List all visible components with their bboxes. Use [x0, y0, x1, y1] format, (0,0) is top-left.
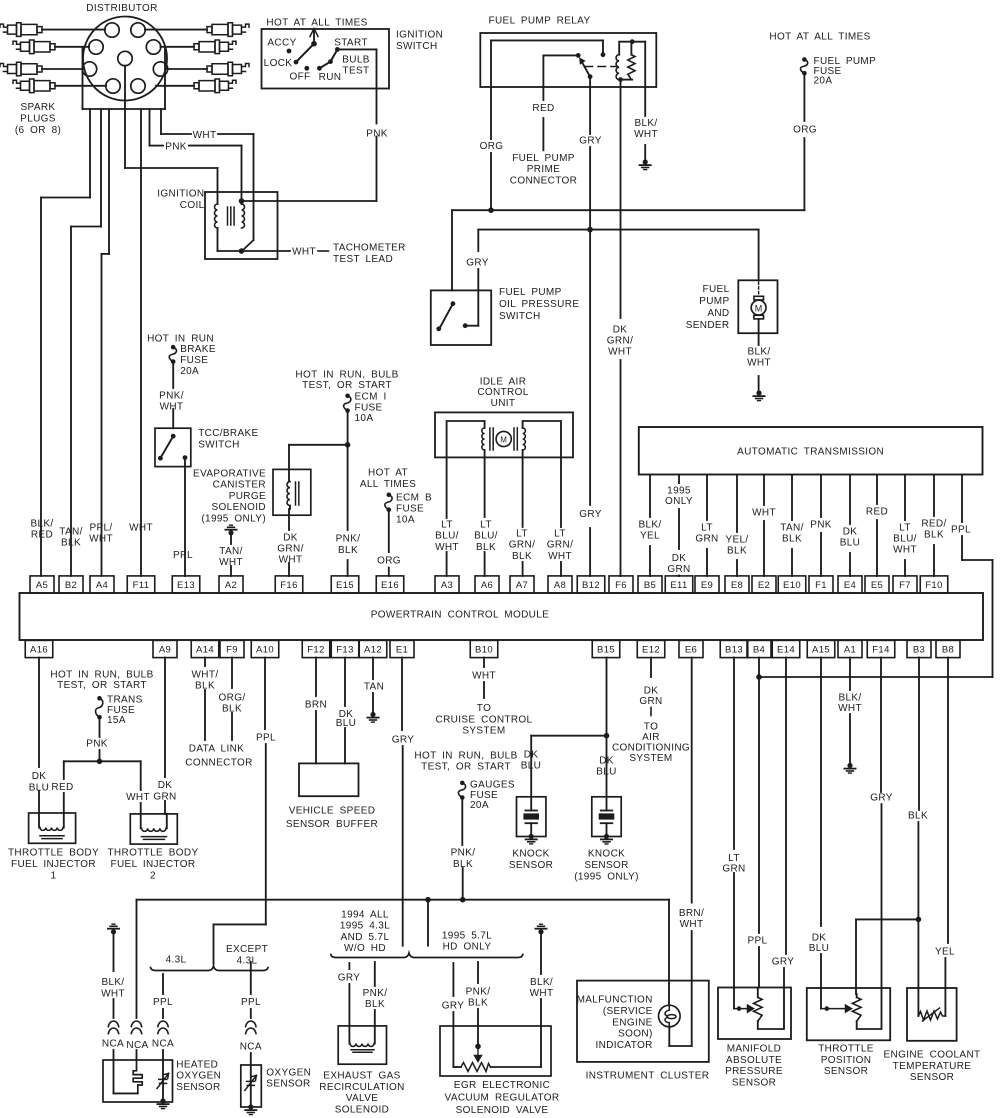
svg-text:DK: DK: [283, 533, 298, 544]
svg-text:WHT: WHT: [101, 988, 125, 999]
svg-text:SPARK: SPARK: [21, 102, 56, 113]
svg-text:ENGINE: ENGINE: [612, 1017, 652, 1028]
svg-text:IGNITION: IGNITION: [396, 30, 443, 41]
svg-text:WHT: WHT: [548, 551, 572, 562]
svg-text:GRY: GRY: [579, 509, 602, 520]
svg-text:FUEL: FUEL: [703, 284, 730, 295]
svg-text:NCA: NCA: [102, 1038, 124, 1049]
svg-text:LOCK: LOCK: [264, 58, 293, 69]
svg-text:UNIT: UNIT: [491, 398, 516, 409]
svg-text:W/O HD: W/O HD: [344, 943, 386, 954]
svg-text:WHT: WHT: [472, 671, 496, 682]
svg-text:RECIRCULATION: RECIRCULATION: [319, 1082, 404, 1093]
svg-text:IDLE AIR: IDLE AIR: [480, 377, 527, 388]
svg-text:1995 5.7L: 1995 5.7L: [442, 931, 492, 942]
svg-text:PLUGS: PLUGS: [20, 113, 56, 124]
svg-text:PNK: PNK: [86, 739, 108, 750]
svg-text:OXYGEN: OXYGEN: [266, 1068, 311, 1079]
svg-text:INDICATOR: INDICATOR: [595, 1040, 652, 1051]
svg-text:E13: E13: [177, 580, 195, 591]
svg-text:WHT: WHT: [126, 792, 150, 803]
svg-text:E12: E12: [642, 645, 660, 656]
svg-text:HD ONLY: HD ONLY: [443, 942, 492, 953]
svg-text:TAN/: TAN/: [219, 546, 242, 557]
svg-text:A8: A8: [554, 580, 566, 591]
svg-text:WHT/: WHT/: [192, 670, 219, 681]
svg-text:TEMPERATURE: TEMPERATURE: [893, 1061, 972, 1072]
svg-text:ALL TIMES: ALL TIMES: [360, 479, 416, 490]
svg-text:AUTOMATIC TRANSMISSION: AUTOMATIC TRANSMISSION: [737, 447, 884, 458]
svg-text:M: M: [500, 436, 507, 445]
svg-text:YEL/: YEL/: [725, 535, 748, 546]
svg-text:B3: B3: [913, 645, 925, 656]
svg-text:SYSTEM: SYSTEM: [629, 753, 672, 764]
svg-text:ORG: ORG: [480, 141, 504, 152]
svg-text:BLK/: BLK/: [30, 519, 53, 530]
svg-text:BLK: BLK: [338, 545, 358, 556]
svg-text:RUN: RUN: [319, 72, 342, 83]
svg-text:FUEL INJECTOR: FUEL INJECTOR: [11, 859, 96, 870]
svg-text:A2: A2: [225, 580, 237, 591]
svg-text:RED: RED: [31, 530, 53, 541]
svg-text:E4: E4: [844, 580, 856, 591]
svg-text:WHT: WHT: [680, 919, 704, 930]
svg-text:F16: F16: [280, 580, 297, 591]
svg-text:HOT IN RUN, BULB: HOT IN RUN, BULB: [414, 751, 517, 762]
svg-text:PPL: PPL: [153, 997, 173, 1008]
svg-text:CONNECTOR: CONNECTOR: [185, 758, 252, 769]
svg-text:EXHAUST GAS: EXHAUST GAS: [323, 1071, 400, 1082]
svg-text:SYSTEM: SYSTEM: [462, 726, 505, 737]
svg-text:ENGINE COOLANT: ENGINE COOLANT: [884, 1050, 981, 1061]
svg-text:PNK/: PNK/: [363, 988, 388, 999]
svg-text:TAN/: TAN/: [59, 527, 82, 538]
svg-text:PPL: PPL: [951, 525, 971, 536]
svg-text:GRN/: GRN/: [277, 544, 303, 555]
svg-text:PNK: PNK: [366, 129, 388, 140]
svg-text:CONDITIONING: CONDITIONING: [612, 743, 690, 754]
svg-text:(1995 ONLY): (1995 ONLY): [574, 872, 639, 883]
svg-text:F11: F11: [133, 580, 150, 591]
svg-text:LT: LT: [554, 529, 566, 540]
svg-text:LT: LT: [899, 523, 911, 534]
svg-text:TACHOMETER: TACHOMETER: [333, 243, 406, 254]
svg-text:CONNECTOR: CONNECTOR: [510, 175, 577, 186]
svg-text:E6: E6: [685, 645, 697, 656]
svg-text:ORG/: ORG/: [219, 693, 246, 704]
svg-text:WHT: WHT: [279, 555, 303, 566]
svg-text:LT: LT: [441, 520, 453, 531]
svg-text:CRUISE CONTROL: CRUISE CONTROL: [436, 714, 533, 725]
svg-text:E10: E10: [783, 580, 801, 591]
svg-text:SENSOR: SENSOR: [266, 1079, 310, 1090]
svg-text:A7: A7: [516, 580, 528, 591]
svg-text:F7: F7: [899, 580, 911, 591]
svg-text:A10: A10: [256, 645, 274, 656]
svg-text:BLK: BLK: [512, 551, 532, 562]
svg-text:WHT: WHT: [634, 129, 658, 140]
svg-text:DK: DK: [613, 325, 628, 336]
svg-text:TEST: TEST: [343, 66, 370, 77]
svg-text:TEST, OR START: TEST, OR START: [421, 761, 511, 772]
svg-text:SWITCH: SWITCH: [396, 41, 438, 52]
svg-text:A3: A3: [441, 580, 453, 591]
svg-text:E9: E9: [701, 580, 713, 591]
svg-text:SENSOR: SENSOR: [824, 1066, 868, 1077]
svg-text:FUSE: FUSE: [355, 402, 383, 413]
svg-text:AND 5.7L: AND 5.7L: [341, 932, 390, 943]
svg-text:RED/: RED/: [921, 519, 946, 530]
svg-text:E8: E8: [731, 580, 743, 591]
svg-text:SOLENOID VALVE: SOLENOID VALVE: [456, 1105, 549, 1116]
svg-text:GRY: GRY: [442, 1001, 465, 1012]
svg-text:GRY: GRY: [772, 957, 795, 968]
svg-text:BLK: BLK: [924, 530, 944, 541]
svg-text:20A: 20A: [814, 76, 833, 87]
svg-text:AND: AND: [707, 308, 729, 319]
svg-text:RED: RED: [532, 103, 554, 114]
svg-text:CANISTER: CANISTER: [213, 480, 266, 491]
svg-text:B2: B2: [65, 580, 77, 591]
svg-text:GRN/: GRN/: [607, 336, 633, 347]
svg-text:TO: TO: [477, 703, 491, 714]
svg-text:B13: B13: [725, 645, 743, 656]
svg-text:HOT AT ALL TIMES: HOT AT ALL TIMES: [769, 32, 870, 43]
svg-text:A12: A12: [364, 645, 382, 656]
svg-text:SOON): SOON): [618, 1029, 653, 1040]
svg-text:B15: B15: [597, 645, 615, 656]
svg-text:BLK: BLK: [727, 546, 747, 557]
svg-text:LT: LT: [480, 520, 492, 531]
svg-text:WHT: WHT: [435, 542, 459, 553]
svg-text:START: START: [334, 38, 368, 49]
svg-text:FUEL PUMP: FUEL PUMP: [512, 153, 575, 164]
svg-text:M: M: [755, 304, 763, 314]
svg-text:ECM B: ECM B: [396, 493, 432, 504]
svg-text:E14: E14: [777, 645, 795, 656]
svg-text:BRN: BRN: [305, 700, 327, 711]
svg-text:ACCY: ACCY: [267, 38, 296, 49]
svg-text:SOLENOID: SOLENOID: [212, 502, 266, 513]
svg-text:BLU: BLU: [840, 538, 861, 549]
svg-text:EXCEPT: EXCEPT: [226, 944, 268, 955]
svg-text:DATA LINK: DATA LINK: [189, 744, 244, 755]
svg-text:HOT IN RUN: HOT IN RUN: [147, 334, 214, 345]
svg-text:ORG: ORG: [793, 125, 817, 136]
svg-text:15A: 15A: [107, 715, 126, 726]
svg-text:GRY: GRY: [338, 973, 361, 984]
svg-text:A5: A5: [36, 580, 48, 591]
svg-text:INSTRUMENT CLUSTER: INSTRUMENT CLUSTER: [586, 1071, 710, 1082]
svg-text:A14: A14: [196, 645, 214, 656]
svg-text:20A: 20A: [180, 366, 199, 377]
svg-text:4.3L: 4.3L: [166, 955, 187, 966]
svg-text:ABSOLUTE: ABSOLUTE: [726, 1055, 782, 1066]
svg-text:PRIME: PRIME: [527, 164, 560, 175]
svg-text:POWERTRAIN CONTROL MODULE: POWERTRAIN CONTROL MODULE: [371, 610, 549, 621]
svg-text:FUEL PUMP RELAY: FUEL PUMP RELAY: [489, 16, 591, 27]
svg-text:ECM I: ECM I: [355, 392, 387, 403]
svg-text:BRAKE: BRAKE: [180, 344, 216, 355]
svg-text:COIL: COIL: [180, 200, 205, 211]
svg-text:WHT: WHT: [838, 703, 862, 714]
svg-text:1995 4.3L: 1995 4.3L: [340, 921, 390, 932]
svg-text:BULB: BULB: [342, 55, 370, 66]
svg-text:GRN/: GRN/: [509, 540, 535, 551]
svg-text:THROTTLE: THROTTLE: [818, 1044, 874, 1055]
svg-text:TEST, OR START: TEST, OR START: [302, 380, 392, 391]
svg-text:TEST LEAD: TEST LEAD: [333, 254, 393, 265]
svg-text:WHT: WHT: [747, 358, 771, 369]
svg-text:ONLY: ONLY: [665, 496, 693, 507]
svg-text:SWITCH: SWITCH: [499, 311, 541, 322]
svg-text:BLK: BLK: [908, 811, 928, 822]
svg-text:TAN/: TAN/: [780, 523, 803, 534]
svg-text:(6 OR 8): (6 OR 8): [15, 125, 61, 136]
svg-text:HOT AT ALL TIMES: HOT AT ALL TIMES: [266, 18, 367, 29]
svg-text:A9: A9: [159, 645, 171, 656]
svg-text:F14: F14: [872, 645, 889, 656]
svg-text:OFF: OFF: [289, 72, 310, 83]
svg-text:PNK/: PNK/: [336, 534, 361, 545]
svg-text:E16: E16: [381, 580, 399, 591]
svg-text:2: 2: [150, 871, 156, 882]
svg-text:4.3L: 4.3L: [237, 956, 258, 967]
svg-text:A6: A6: [481, 580, 493, 591]
svg-text:GRN: GRN: [639, 696, 662, 707]
svg-text:BLU: BLU: [336, 718, 357, 729]
svg-text:BLK/: BLK/: [747, 347, 770, 358]
svg-text:VEHICLE SPEED: VEHICLE SPEED: [289, 806, 376, 817]
svg-text:MALFUNCTION: MALFUNCTION: [577, 995, 653, 1006]
svg-text:SENSOR: SENSOR: [732, 1077, 776, 1088]
svg-text:DK: DK: [843, 527, 858, 538]
svg-text:1995: 1995: [667, 486, 691, 497]
svg-text:BLU/: BLU/: [435, 531, 459, 542]
svg-text:GRY: GRY: [466, 258, 489, 269]
svg-text:GRY: GRY: [870, 793, 893, 804]
svg-text:HEATED: HEATED: [176, 1060, 218, 1071]
svg-text:FUEL PUMP: FUEL PUMP: [499, 287, 562, 298]
svg-text:TEST, OR START: TEST, OR START: [57, 680, 147, 691]
svg-text:SENSOR BUFFER: SENSOR BUFFER: [286, 819, 378, 830]
svg-text:FUSE: FUSE: [396, 504, 424, 515]
svg-text:VACUUM REGULATOR: VACUUM REGULATOR: [445, 1092, 560, 1103]
svg-text:OXYGEN: OXYGEN: [176, 1071, 221, 1082]
svg-text:NCA: NCA: [126, 1040, 148, 1051]
svg-text:A15: A15: [812, 645, 830, 656]
svg-text:FUEL INJECTOR: FUEL INJECTOR: [111, 859, 196, 870]
svg-text:EGR ELECTRONIC: EGR ELECTRONIC: [454, 1080, 550, 1091]
svg-text:A1: A1: [844, 645, 856, 656]
svg-text:F6: F6: [615, 580, 627, 591]
svg-text:THROTTLE BODY: THROTTLE BODY: [107, 848, 198, 859]
svg-text:F1: F1: [815, 580, 827, 591]
svg-text:E15: E15: [336, 580, 354, 591]
svg-text:GRN: GRN: [667, 564, 690, 575]
svg-text:DK: DK: [812, 933, 827, 944]
svg-text:WHT: WHT: [129, 523, 153, 534]
svg-text:DK: DK: [524, 750, 539, 761]
svg-text:1994 ALL: 1994 ALL: [341, 910, 389, 921]
svg-text:RED: RED: [51, 782, 73, 793]
svg-text:RED: RED: [866, 507, 888, 518]
svg-text:BLK/: BLK/: [838, 693, 861, 704]
svg-text:WHT: WHT: [608, 347, 632, 358]
svg-text:LT: LT: [728, 853, 740, 864]
svg-text:THROTTLE BODY: THROTTLE BODY: [8, 848, 99, 859]
svg-text:HOT IN RUN, BULB: HOT IN RUN, BULB: [295, 369, 398, 380]
svg-text:YEL: YEL: [640, 531, 660, 542]
svg-text:BLK: BLK: [365, 999, 385, 1010]
svg-text:HOT IN RUN, BULB: HOT IN RUN, BULB: [50, 670, 153, 681]
svg-text:TAN: TAN: [364, 682, 384, 693]
svg-text:(1995 ONLY): (1995 ONLY): [201, 513, 266, 524]
svg-text:TCC/BRAKE: TCC/BRAKE: [198, 428, 258, 439]
svg-text:WHT: WHT: [89, 534, 113, 545]
svg-text:WHT: WHT: [893, 545, 917, 556]
svg-text:(SERVICE: (SERVICE: [603, 1006, 653, 1017]
svg-text:PNK/: PNK/: [466, 987, 491, 998]
svg-text:DISTRIBUTOR: DISTRIBUTOR: [86, 3, 157, 14]
svg-text:MANIFOLD: MANIFOLD: [727, 1044, 781, 1055]
svg-text:DK: DK: [158, 780, 173, 791]
svg-text:PRESSURE: PRESSURE: [725, 1066, 783, 1077]
svg-text:10A: 10A: [396, 515, 415, 526]
svg-text:LT: LT: [516, 529, 528, 540]
svg-text:WHT: WHT: [193, 130, 217, 141]
svg-text:A16: A16: [30, 645, 48, 656]
svg-text:NCA: NCA: [152, 1038, 174, 1049]
svg-text:WHT: WHT: [530, 988, 554, 999]
svg-text:WHT: WHT: [160, 402, 184, 413]
svg-text:BLU: BLU: [596, 767, 617, 778]
svg-text:A4: A4: [96, 580, 108, 591]
svg-text:PNK/: PNK/: [451, 848, 476, 859]
svg-text:B10: B10: [475, 645, 493, 656]
svg-text:BLK/: BLK/: [634, 118, 657, 129]
svg-text:PURGE: PURGE: [229, 491, 266, 502]
svg-text:BLK/: BLK/: [638, 520, 661, 531]
svg-text:PPL/: PPL/: [89, 523, 112, 534]
svg-text:BLK/: BLK/: [530, 977, 553, 988]
svg-text:B4: B4: [753, 645, 765, 656]
svg-text:B8: B8: [942, 645, 954, 656]
svg-text:BLK: BLK: [468, 998, 488, 1009]
svg-text:SENSOR: SENSOR: [584, 860, 628, 871]
svg-text:SOLENOID: SOLENOID: [335, 1104, 389, 1115]
svg-text:PPL: PPL: [173, 550, 193, 561]
svg-text:YEL: YEL: [935, 947, 955, 958]
svg-text:SWITCH: SWITCH: [198, 439, 240, 450]
svg-text:GRN: GRN: [695, 534, 718, 545]
svg-text:VALVE: VALVE: [346, 1093, 379, 1104]
svg-text:SENDER: SENDER: [686, 320, 730, 331]
svg-text:F13: F13: [336, 645, 353, 656]
svg-text:PPL: PPL: [241, 997, 261, 1008]
svg-text:AIR: AIR: [642, 732, 660, 743]
svg-text:E5: E5: [871, 580, 883, 591]
svg-text:POSITION: POSITION: [821, 1055, 872, 1066]
svg-text:F12: F12: [307, 645, 324, 656]
svg-text:CONTROL: CONTROL: [477, 387, 528, 398]
svg-text:E11: E11: [670, 580, 687, 591]
svg-text:GRN/: GRN/: [547, 540, 573, 551]
svg-text:DK: DK: [32, 771, 47, 782]
svg-text:IGNITION: IGNITION: [157, 189, 204, 200]
svg-text:BLK: BLK: [782, 534, 802, 545]
svg-text:B12: B12: [582, 580, 600, 591]
svg-text:BLU/: BLU/: [893, 534, 917, 545]
svg-text:TO: TO: [644, 722, 658, 733]
svg-text:PNK/: PNK/: [159, 391, 184, 402]
svg-text:DK: DK: [599, 756, 614, 767]
svg-text:ORG: ORG: [377, 556, 401, 567]
svg-text:1: 1: [51, 871, 57, 882]
svg-text:DK: DK: [672, 553, 687, 564]
svg-text:F10: F10: [925, 580, 942, 591]
svg-text:PPL: PPL: [256, 733, 276, 744]
svg-text:BLU: BLU: [521, 761, 542, 772]
svg-text:OIL PRESSURE: OIL PRESSURE: [499, 299, 579, 310]
svg-text:FUSE: FUSE: [180, 355, 208, 366]
svg-text:GRY: GRY: [579, 136, 602, 147]
svg-text:NCA: NCA: [240, 1042, 262, 1053]
svg-text:SENSOR: SENSOR: [509, 860, 553, 871]
svg-text:PPL: PPL: [748, 936, 768, 947]
svg-text:HOT AT: HOT AT: [368, 468, 408, 479]
svg-text:KNOCK: KNOCK: [512, 849, 549, 860]
svg-text:20A: 20A: [470, 800, 489, 811]
svg-text:10A: 10A: [355, 413, 374, 424]
svg-text:BRN/: BRN/: [679, 908, 704, 919]
svg-text:GRY: GRY: [392, 735, 415, 746]
svg-text:BLU/: BLU/: [474, 531, 498, 542]
svg-text:PNK: PNK: [165, 142, 187, 153]
svg-text:E2: E2: [758, 580, 770, 591]
svg-text:SENSOR: SENSOR: [176, 1082, 220, 1093]
svg-text:B5: B5: [644, 580, 656, 591]
svg-text:PNK: PNK: [810, 520, 832, 531]
svg-text:LT: LT: [701, 523, 713, 534]
svg-text:BLK: BLK: [476, 542, 496, 553]
svg-text:F9: F9: [226, 645, 238, 656]
svg-text:KNOCK: KNOCK: [588, 849, 625, 860]
svg-text:WHT: WHT: [752, 508, 776, 519]
svg-text:WHT: WHT: [292, 247, 316, 258]
svg-text:PUMP: PUMP: [699, 296, 729, 307]
svg-text:E1: E1: [396, 645, 408, 656]
svg-text:BLU: BLU: [809, 943, 830, 954]
svg-text:BLK: BLK: [61, 538, 81, 549]
svg-text:BLK/: BLK/: [101, 977, 124, 988]
svg-text:SENSOR: SENSOR: [910, 1072, 954, 1083]
svg-text:EVAPORATIVE: EVAPORATIVE: [193, 469, 266, 480]
